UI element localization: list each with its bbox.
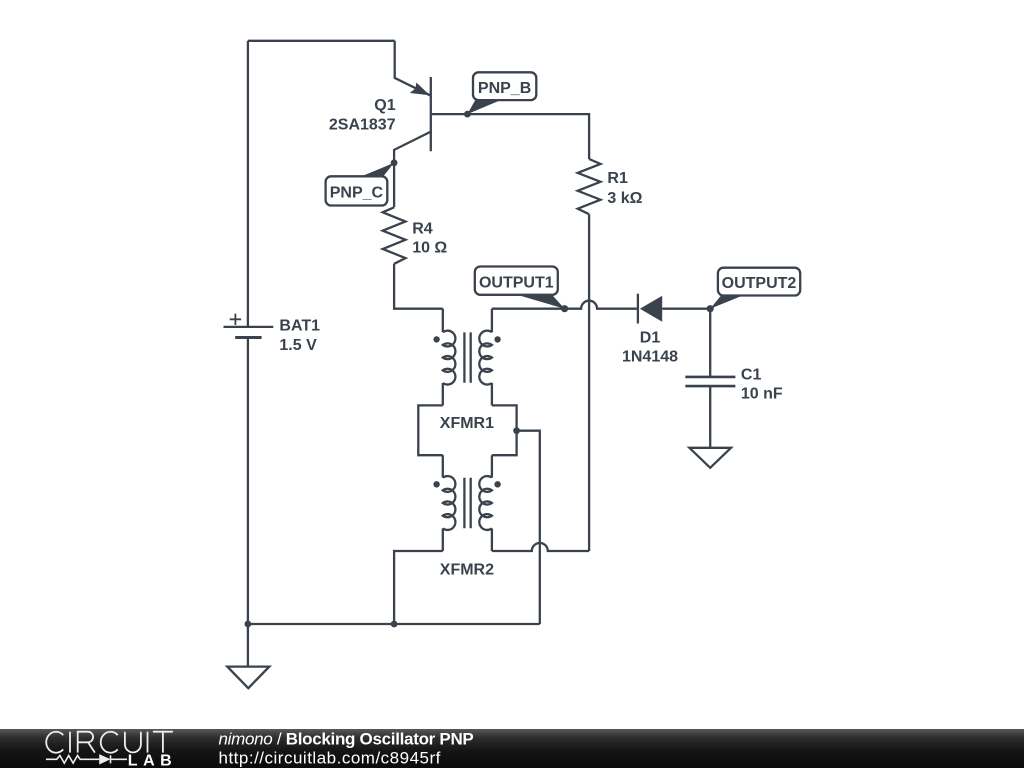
node label OUTPUT1 box [475, 267, 558, 295]
node PNP_C junction dot [391, 159, 398, 166]
node label OUTPUT2 pointer [710, 293, 749, 309]
junction dot battery-ground [245, 621, 252, 628]
resistor R4 [383, 207, 406, 263]
transformer XFMR1 phase dot left [433, 336, 439, 342]
svg-text:OUTPUT2: OUTPUT2 [722, 275, 797, 292]
ground symbol left lead [247, 624, 249, 667]
node label PNP_C box [326, 176, 388, 205]
node label PNP_B box [473, 72, 536, 100]
capacitor C1 top lead [709, 309, 711, 377]
wire battery bottom vertical [247, 338, 249, 625]
node label PNP_C pointer [362, 163, 395, 177]
transistor Q1 emitter arrow [410, 83, 430, 96]
svg-text:BAT1: BAT1 [279, 318, 320, 335]
svg-text:XFMR1: XFMR1 [440, 415, 494, 432]
battery BAT1 plus sign [230, 314, 241, 325]
svg-text:Q1: Q1 [374, 97, 395, 114]
transformer XFMR1 label box left bracket [418, 405, 443, 455]
ground symbol left [227, 667, 269, 689]
svg-text:C1: C1 [741, 366, 762, 383]
battery BAT1 plus plate [224, 326, 274, 328]
wire OUTPUT1 horizontal with hop over R1 branch [492, 301, 637, 309]
svg-text:2SA1837: 2SA1837 [329, 116, 396, 133]
capacitor C1 plates [685, 377, 735, 386]
diode D1 cathode bar [637, 294, 639, 324]
node OUTPUT2 junction dot [707, 305, 714, 312]
svg-text:OUTPUT1: OUTPUT1 [479, 274, 554, 291]
transformer XFMR1 label box right bracket [492, 405, 517, 455]
transformer XFMR1 primary winding [442, 309, 444, 333]
svg-text:R1: R1 [607, 170, 628, 187]
wire R4 bottom to XFMR1 primary top [394, 264, 443, 309]
svg-text:LAB: LAB [128, 752, 177, 768]
logo schematic squiggle [46, 755, 127, 763]
ground symbol right [689, 448, 731, 468]
svg-text:1N4148: 1N4148 [622, 349, 678, 366]
svg-text:10 Ω: 10 Ω [412, 240, 447, 257]
svg-text:PNP_C: PNP_C [330, 184, 384, 201]
transformer XFMR2 primary winding [442, 455, 444, 477]
svg-text:3 kΩ: 3 kΩ [607, 190, 642, 207]
transformer XFMR1 phase dot right [494, 336, 500, 342]
junction dot ground bus left [391, 621, 398, 628]
transformer XFMR1 secondary winding [491, 309, 493, 333]
svg-text:R4: R4 [412, 221, 433, 238]
capacitor C1 bottom lead [709, 386, 711, 448]
transformer XFMR2 core [464, 478, 470, 528]
node label OUTPUT1 pointer [517, 295, 565, 309]
transistor Q1 collector lead [394, 132, 431, 208]
wire XFMR2 primary bottom to ground bus [394, 551, 443, 624]
svg-text:PNP_B: PNP_B [478, 80, 531, 97]
diode D1 triangle [640, 296, 662, 322]
node OUTPUT1 junction dot [561, 305, 568, 312]
resistor R1 [578, 159, 601, 214]
junction dot XFMR1 right edge [513, 427, 520, 434]
node PNP_B junction dot [464, 111, 471, 118]
svg-text:nimono / Blocking Oscillator P: nimono / Blocking Oscillator PNP [219, 730, 474, 749]
transformer XFMR2 phase dot right [494, 481, 500, 487]
transformer XFMR2 phase dot left [433, 481, 439, 487]
battery BAT1 minus plate [235, 336, 261, 339]
wire emitter lead [395, 41, 431, 96]
transformer XFMR2 secondary winding [491, 455, 493, 477]
svg-text:D1: D1 [640, 329, 661, 346]
wire top horizontal [248, 40, 395, 42]
node label PNP_B pointer [467, 100, 500, 114]
svg-text:http://circuitlab.com/c8945rf: http://circuitlab.com/c8945rf [219, 749, 441, 768]
transistor Q1 base bar [430, 77, 432, 151]
wire D1 to OUTPUT2 [662, 308, 710, 310]
wire R1 bottom down to XFMR2 secondary [588, 214, 590, 551]
wire XFMR1 junction to ground bus [517, 431, 540, 624]
node label OUTPUT2 box [718, 268, 800, 296]
wire XFMR2 secondary bottom to R1 branch (hop over bus) [492, 543, 589, 551]
wire ground bus bottom [248, 623, 540, 625]
svg-text:10 nF: 10 nF [741, 386, 783, 403]
wire base to R1 corner [431, 114, 589, 159]
wire battery top vertical [247, 41, 249, 327]
svg-text:1.5 V: 1.5 V [279, 337, 317, 354]
logo CIRCUIT wordmark [46, 732, 173, 753]
transformer XFMR1 core [464, 332, 470, 382]
logo diode triangle [99, 754, 110, 764]
svg-text:XFMR2: XFMR2 [440, 562, 494, 579]
